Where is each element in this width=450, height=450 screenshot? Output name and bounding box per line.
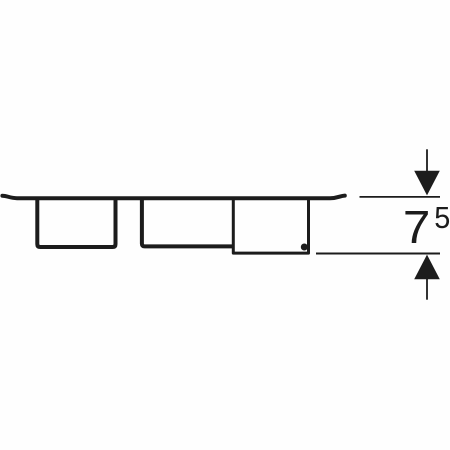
compartment 2 outline [142,199,234,246]
top dimension line [360,196,441,198]
bottom dimension line [316,253,440,255]
compartment 3 outline [233,199,308,253]
svg-text:5: 5 [434,201,450,235]
svg-text:7: 7 [403,202,430,253]
compartment 1 outline [37,199,115,247]
top arrowhead pointing down [414,171,440,196]
top arrow tail [426,149,428,178]
bottom arrow tail [426,277,428,300]
bottom arrowhead pointing up [414,255,440,280]
washbasin top profile [2,196,344,199]
drain dot [301,244,308,251]
